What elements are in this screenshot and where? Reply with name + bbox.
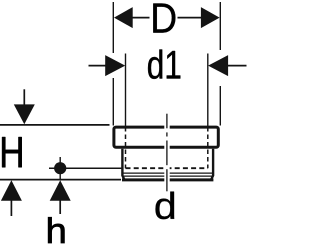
dimension d1 tail left xyxy=(89,65,107,67)
dimension d1 tail right xyxy=(227,65,246,67)
dimension d1 extension line left xyxy=(125,54,127,127)
dimension d1 arrow right xyxy=(208,55,228,76)
fitting spigot bottom edge xyxy=(122,178,213,181)
dimension h axis horizontal line xyxy=(49,167,122,169)
fitting spigot right edge xyxy=(211,149,213,180)
label h xyxy=(48,217,64,243)
dimension D line segments xyxy=(132,17,203,19)
label d xyxy=(156,192,175,220)
dimension h arrow xyxy=(50,180,71,201)
bottom reference line xyxy=(0,179,121,181)
hidden bore line right (dashed) xyxy=(207,127,209,168)
label D xyxy=(153,3,175,32)
centerline halo xyxy=(164,125,169,183)
centerline (dash-dot) xyxy=(166,114,168,192)
dimension D arrow left xyxy=(114,7,133,28)
dimension H bottom tail xyxy=(10,200,12,216)
fitting spigot left edge xyxy=(122,149,124,180)
dimension D extension line right xyxy=(219,2,221,126)
dimension D extension line left xyxy=(112,2,114,126)
dimension H top tail xyxy=(23,89,25,105)
dimension h axis dot xyxy=(54,162,66,174)
label H xyxy=(2,137,22,167)
fitting spigot groove line 1 xyxy=(123,172,213,174)
dimension H top reference line xyxy=(0,124,110,126)
dimension D arrow right xyxy=(201,7,220,28)
hidden bore line left (dashed) xyxy=(125,127,127,168)
dimension h tail xyxy=(59,200,61,214)
label d1 xyxy=(148,50,162,79)
fitting spigot groove line 2 xyxy=(123,175,213,177)
dimension H bottom arrow xyxy=(1,180,22,201)
fitting collar (socket outer shell) xyxy=(114,127,218,147)
dimension h axis vertical line xyxy=(59,157,61,180)
hidden bore bottom (dashed) xyxy=(126,167,208,169)
dimension H top arrow xyxy=(14,104,35,124)
dimension d1 arrow left xyxy=(105,55,125,76)
dimension d1 extension line right xyxy=(207,54,209,127)
